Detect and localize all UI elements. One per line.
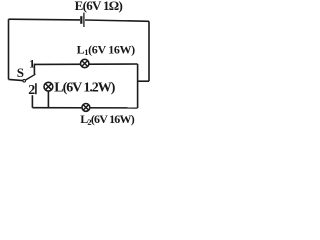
svg-text:E(6V 1Ω): E(6V 1Ω) [75,0,123,13]
svg-text:L(6V 1.2W): L(6V 1.2W) [54,81,115,96]
svg-text:S: S [17,65,24,80]
wire top-left segment [9,18,81,21]
wire bottom branch [32,107,137,109]
lamp L [44,82,53,91]
lamp L2 [82,104,90,112]
switch contact 2 bar [35,83,37,94]
switch contact 1 bar [33,64,35,75]
wire middle branch [34,63,137,65]
switch S pivot [23,79,26,82]
wire contact-2 down [31,95,33,108]
svg-text:1: 1 [29,56,35,70]
wire right border [148,21,150,81]
wire top-right segment [85,20,149,21]
wire left border [8,19,10,79]
wire lamp L down [47,91,49,108]
wire stub right [138,80,149,82]
wire to switch pivot [9,79,23,80]
switch S lever [26,74,36,80]
lamp L1 [81,59,89,67]
battery E short thick plate [80,16,82,24]
battery E long thin plate [83,13,85,27]
wire right-mid vertical [137,64,139,108]
